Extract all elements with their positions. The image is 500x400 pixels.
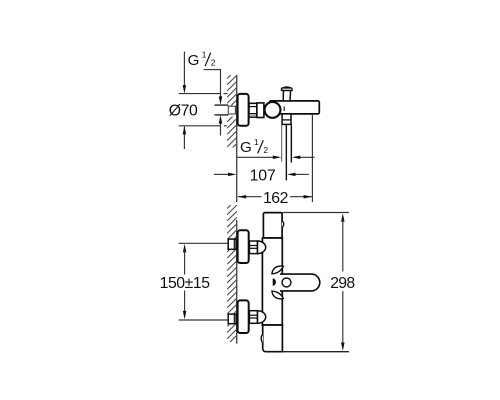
dimension 150+-15 extension lines xyxy=(179,242,228,244)
svg-text:162: 162 xyxy=(263,190,288,207)
svg-text:1: 1 xyxy=(254,137,259,147)
wall line (front view) xyxy=(236,220,238,344)
svg-text:150±15: 150±15 xyxy=(160,275,211,292)
escutcheon flange 2 (front) xyxy=(238,300,249,333)
spout (front view) xyxy=(280,274,320,291)
hose nipple lines xyxy=(281,124,283,161)
control knob circle xyxy=(265,102,281,118)
svg-text:298: 298 xyxy=(330,275,355,292)
hex union nut (side view) xyxy=(249,103,257,117)
union nut 2 xyxy=(249,311,257,324)
svg-text:107: 107 xyxy=(250,167,276,184)
svg-text:2: 2 xyxy=(211,58,216,68)
O70 dimension arrows xyxy=(183,52,185,88)
bottom cap notch xyxy=(261,335,263,343)
wall socket fitting xyxy=(228,106,235,114)
label G1/2 top xyxy=(188,50,216,70)
supply hex 2 behind wall xyxy=(228,314,236,324)
wall hatch (front view) xyxy=(227,199,237,357)
escutcheon flange 1 (front) xyxy=(238,230,249,263)
dimension 150+-15 arrows xyxy=(183,244,187,253)
union D-cap 2 xyxy=(258,311,266,324)
escutcheon flange (side view) xyxy=(238,94,249,126)
diverter knob xyxy=(283,90,290,101)
spout lower leaf xyxy=(272,291,283,299)
dimension 107 xyxy=(214,173,230,175)
dark half-moon xyxy=(273,278,276,285)
supply pipe behind wall xyxy=(215,104,229,106)
body bottom cap (front) xyxy=(263,325,283,352)
svg-text:1: 1 xyxy=(202,50,207,60)
mixer body (side view) xyxy=(270,101,320,114)
union D-cap 1 xyxy=(258,241,266,254)
dimension 298 extension lines xyxy=(282,212,349,214)
label G1/2 lower xyxy=(240,137,268,156)
dimension arrows G1/2 top (pipe dia) xyxy=(220,70,222,99)
svg-text:Ø70: Ø70 xyxy=(169,103,198,120)
svg-text:G: G xyxy=(240,139,252,156)
supply hex 1 behind wall xyxy=(228,239,236,249)
svg-text:2: 2 xyxy=(263,145,268,155)
wall hatch (side view) xyxy=(227,69,237,153)
wall line (side view) xyxy=(236,75,238,202)
leader line G1/2 top xyxy=(204,69,221,71)
tick mark on body xyxy=(283,106,285,111)
adapter sleeve xyxy=(257,103,264,118)
union nut 1 xyxy=(249,241,257,254)
outlet collar xyxy=(282,114,291,125)
dimension 298 arrows xyxy=(341,213,345,222)
svg-text:G: G xyxy=(188,52,200,69)
spout upper leaf xyxy=(272,266,283,274)
aerator circle xyxy=(282,278,291,287)
top cap notch xyxy=(282,221,284,227)
dimension 162 xyxy=(311,115,313,202)
body top cap (front) xyxy=(263,213,282,238)
main body (front) xyxy=(262,238,282,325)
dimension G1/2 lower (hose nipple) xyxy=(237,156,275,158)
O70 extension lines xyxy=(179,93,221,95)
